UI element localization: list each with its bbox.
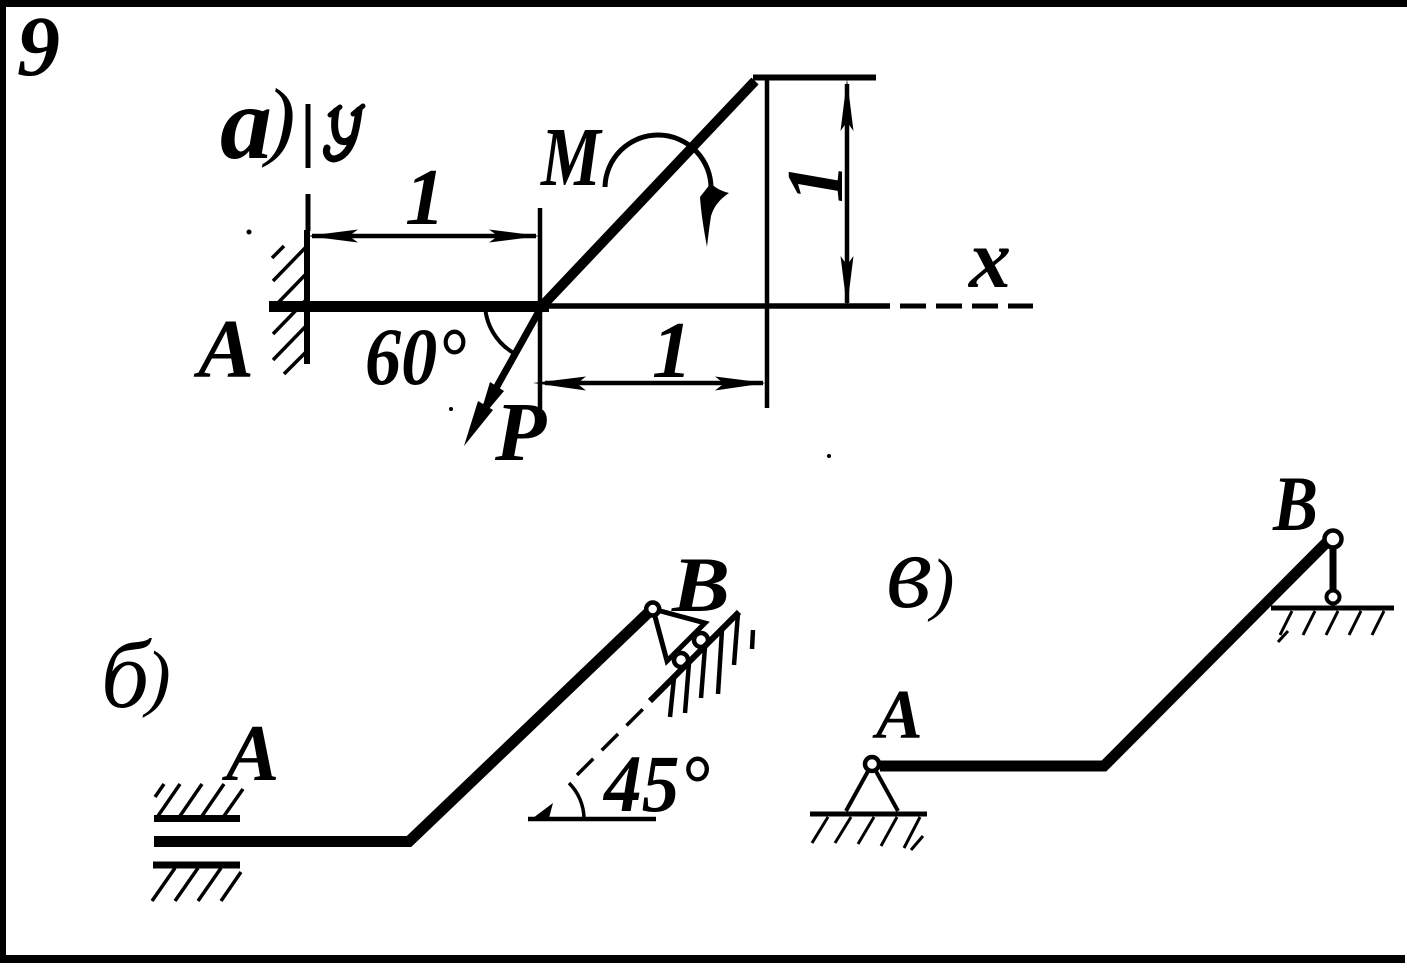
ground hatch A short xyxy=(911,836,923,850)
bottom plate xyxy=(153,862,240,869)
dust speck 2 xyxy=(449,407,453,411)
dust speck 3 xyxy=(827,454,831,458)
force P arrowhead xyxy=(464,401,493,446)
wall hatch 3 xyxy=(273,300,306,334)
label y xyxy=(335,111,352,142)
svg-text:a: a xyxy=(220,66,272,181)
ground hatch A4 xyxy=(881,817,897,846)
ground hatch A1 xyxy=(812,817,828,843)
svg-text:45°: 45° xyxy=(602,739,709,830)
frame top border xyxy=(0,0,1407,7)
bottom plate hatch 4 xyxy=(221,872,241,901)
incline hatch 4 xyxy=(718,630,722,694)
link lower circle xyxy=(1327,591,1340,604)
moment arc M xyxy=(605,135,711,189)
ground hatch B4 xyxy=(1349,611,1361,635)
pin triangle leg right xyxy=(872,764,898,811)
ground hatch B5 xyxy=(1372,611,1384,635)
beam v) xyxy=(880,542,1327,766)
ground hatch B stub xyxy=(1278,631,1288,642)
pin circle B (b) xyxy=(646,603,659,616)
dust speck 1 xyxy=(247,230,252,235)
vert dim bottom arrowhead xyxy=(841,256,854,308)
svg-text:B: B xyxy=(1272,460,1318,547)
angle vertex arrowhead xyxy=(529,803,553,821)
wall hatch 4 xyxy=(273,326,306,360)
ground hatch A3 xyxy=(858,817,874,844)
top dim right arrowhead xyxy=(489,230,540,243)
moment arrowhead xyxy=(700,183,729,247)
beam AB horizontal xyxy=(269,301,549,312)
ground hatch A5 xyxy=(904,817,920,848)
wall hatch 2 xyxy=(273,274,306,308)
pin circle B (v) xyxy=(1325,531,1342,548)
top plate hatch stub xyxy=(155,784,164,797)
dashed 45 line xyxy=(577,689,663,775)
svg-text:): ) xyxy=(261,72,295,169)
svg-text:A: A xyxy=(872,677,923,754)
roller 1 xyxy=(694,633,708,647)
svg-text:A: A xyxy=(221,710,279,798)
bottom plate hatch 3 xyxy=(198,868,221,901)
60 degree arc xyxy=(485,303,515,354)
x-axis solid xyxy=(549,303,890,309)
angle baseline xyxy=(528,817,656,822)
wall hatch stub xyxy=(272,246,284,258)
joint extension line xyxy=(538,208,543,409)
vertical dimension line xyxy=(845,84,850,303)
incline surface xyxy=(650,612,739,701)
top plate xyxy=(154,815,240,822)
force P line xyxy=(481,304,543,415)
top dim left arrowhead xyxy=(307,230,358,243)
svg-text:60°: 60° xyxy=(365,311,466,402)
svg-text:A: A xyxy=(193,303,254,396)
svg-text:1: 1 xyxy=(405,154,445,242)
top plate hatch 3 xyxy=(202,784,224,816)
ground line B (v) xyxy=(1271,606,1394,611)
svg-text:x: x xyxy=(967,213,1011,306)
frame left border xyxy=(0,0,6,963)
force P second chevron xyxy=(478,382,504,422)
right extension line xyxy=(765,77,770,408)
incline hatch 1 xyxy=(670,678,674,717)
frame bottom border xyxy=(0,955,1405,963)
incline hatch short xyxy=(752,630,753,649)
svg-text:): ) xyxy=(142,637,171,719)
svg-text:M: M xyxy=(540,111,603,204)
x-axis dashed xyxy=(900,304,1033,309)
wall hatch 1 xyxy=(273,247,306,281)
bottom dimension line xyxy=(545,381,763,386)
svg-text:в: в xyxy=(886,513,932,630)
bottom dim right arrowhead xyxy=(715,377,766,391)
top plate hatch 4 xyxy=(224,789,243,816)
bottom plate hatch 1 xyxy=(152,868,175,901)
pin circle A (v) xyxy=(865,757,879,771)
pin triangle leg left xyxy=(846,764,872,811)
svg-text:б: б xyxy=(101,621,152,728)
svg-text:1: 1 xyxy=(772,163,860,203)
beam b) xyxy=(154,612,649,842)
diagonal beam xyxy=(544,81,755,304)
ground hatch B1 xyxy=(1280,611,1292,635)
link rod xyxy=(1330,545,1337,594)
top plate hatch 2 xyxy=(180,784,202,816)
incline hatch 2 xyxy=(685,663,689,713)
wall line at A xyxy=(304,230,310,364)
top dimension line xyxy=(312,234,536,239)
svg-text:1: 1 xyxy=(652,307,692,395)
vert dim top arrowhead xyxy=(841,79,854,131)
svg-text:): ) xyxy=(927,546,954,623)
angle arc 45 xyxy=(569,783,584,819)
svg-text:P: P xyxy=(494,386,547,479)
incline hatch 3 xyxy=(701,647,705,698)
ground line A (v) xyxy=(810,812,927,817)
ground hatch B3 xyxy=(1326,611,1338,635)
roller 2 xyxy=(674,653,688,667)
y-axis dashed xyxy=(306,104,311,168)
wall hatch 5 xyxy=(284,352,306,374)
roller bracket triangle xyxy=(653,609,705,661)
svg-text:9: 9 xyxy=(17,0,60,94)
bottom dim left arrowhead xyxy=(533,377,586,391)
top extension line xyxy=(753,75,876,81)
bottom plate hatch 2 xyxy=(175,868,198,901)
top plate hatch 1 xyxy=(158,784,180,816)
ground hatch A2 xyxy=(835,817,851,843)
incline hatch 5 xyxy=(734,613,738,665)
ground hatch B2 xyxy=(1303,611,1315,635)
